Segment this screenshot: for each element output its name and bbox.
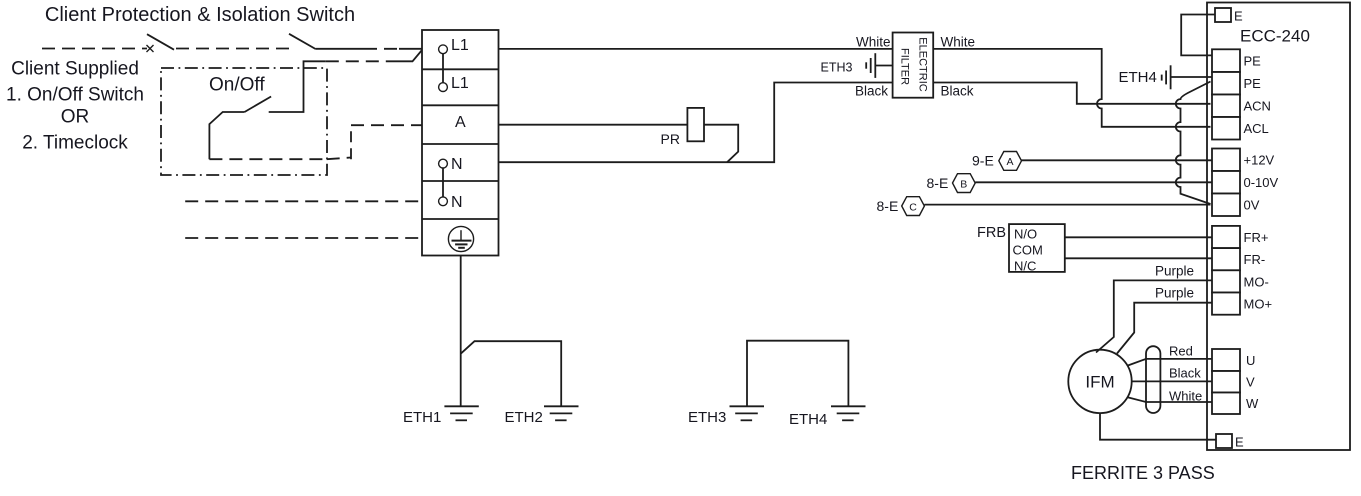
jumper link L1-L1: [442, 54, 444, 83]
svg-text:ETH4: ETH4: [1119, 69, 1157, 86]
wire hexagon B to 0-10V: [975, 181, 1212, 183]
terminal group FR+/FR-/MO-/MO+: [1212, 226, 1240, 315]
svg-text:N/C: N/C: [1014, 259, 1036, 274]
svg-text:FERRITE 3 PASS: FERRITE 3 PASS: [1071, 463, 1215, 483]
wire COM to FR-: [1065, 257, 1212, 259]
svg-text:W: W: [1246, 396, 1259, 411]
svg-text:White: White: [1169, 389, 1202, 404]
svg-text:ETH1: ETH1: [403, 409, 441, 426]
connector hexagon B: [953, 174, 976, 193]
connector hexagon A: [999, 152, 1022, 171]
svg-text:E: E: [1235, 435, 1244, 450]
svg-text:On/Off: On/Off: [209, 75, 265, 96]
svg-text:White: White: [856, 35, 891, 50]
svg-text:ETH2: ETH2: [505, 409, 543, 426]
wire PR to N junction: [704, 125, 738, 163]
svg-text:ELECTRIC: ELECTRIC: [917, 37, 929, 91]
terminal N top circle: [439, 159, 448, 168]
wire motor red to U: [1128, 359, 1213, 366]
terminal L1 lower circle: [439, 83, 448, 92]
terminal group PE/PE/ACN/ACL: [1212, 49, 1240, 139]
svg-text:2. Timeclock: 2. Timeclock: [22, 133, 128, 154]
svg-text:ECC-240: ECC-240: [1240, 27, 1310, 46]
wire dashed between switch poles: [176, 48, 289, 50]
wire dashed stub into earth terminal: [185, 237, 422, 239]
ground ETH1: [444, 406, 478, 420]
svg-text:ACN: ACN: [1244, 99, 1271, 114]
svg-text:8-E: 8-E: [877, 198, 899, 214]
svg-text:FRB: FRB: [977, 225, 1006, 241]
svg-text:ACL: ACL: [1244, 121, 1269, 136]
relay contact block FRB: [1009, 224, 1065, 272]
wire L dashed supply lead: [42, 48, 147, 50]
switch SW3 blade: [245, 97, 272, 113]
svg-text:8-E: 8-E: [927, 175, 949, 191]
svg-text:Black: Black: [941, 84, 974, 99]
wire filter black output to ACN: [933, 83, 1210, 104]
terminal E bottom square: [1216, 434, 1232, 448]
wire earth terminal down to ETH1: [460, 256, 462, 407]
switch SW1 blade: [147, 34, 174, 50]
svg-text:N: N: [451, 156, 463, 173]
terminal block TB1 outline: [422, 30, 499, 256]
wire hexagon A to +12V: [1022, 159, 1213, 161]
svg-text:Client Supplied: Client Supplied: [11, 59, 139, 80]
wire motor white to W: [1128, 397, 1213, 402]
protective earth terminal symbol: [448, 226, 473, 251]
wire L1 to electric filter (live): [499, 48, 893, 50]
ferrite core (3 pass) capsule: [1146, 346, 1160, 413]
node X contact mark: [147, 45, 154, 52]
relay coil PR: [687, 108, 704, 141]
svg-text:0V: 0V: [1244, 198, 1260, 213]
switch SW3 On/Off contact left lead: [209, 112, 244, 159]
wire bundle PE2 to 0V with hops: [1176, 82, 1211, 205]
wire filter white output to ACL (with hop over black): [933, 49, 1210, 127]
terminal group +12V/0-10V/0V: [1212, 149, 1240, 217]
svg-text:9-E: 9-E: [972, 153, 994, 169]
wire dashed stub into N terminal: [185, 200, 422, 202]
wire branch to ETH2: [461, 341, 561, 406]
svg-text:C: C: [909, 201, 917, 213]
svg-text:Purple: Purple: [1155, 286, 1194, 301]
svg-text:ETH3: ETH3: [688, 409, 726, 426]
svg-text:U: U: [1246, 353, 1255, 368]
jumper link N-N: [442, 168, 444, 197]
svg-text:MO+: MO+: [1244, 297, 1273, 312]
svg-text:E: E: [1234, 9, 1243, 24]
svg-text:ETH3: ETH3: [821, 61, 853, 75]
svg-text:1. On/Off Switch: 1. On/Off Switch: [6, 85, 144, 106]
switch SW3 right lead: [269, 61, 326, 112]
ground ETH4 (bottom): [831, 406, 866, 420]
svg-text:A: A: [1006, 156, 1013, 168]
svg-text:Red: Red: [1169, 344, 1193, 359]
wire switch to L1 terminal: [316, 48, 364, 50]
ground ETH4 chassis symbol: [1162, 65, 1212, 89]
svg-text:FILTER: FILTER: [899, 48, 911, 85]
svg-text:N: N: [451, 194, 463, 211]
wire purple MO- to motor: [1096, 280, 1212, 352]
svg-text:OR: OR: [61, 107, 90, 128]
svg-text:+12V: +12V: [1244, 153, 1275, 168]
wire N/O to FR+: [1065, 236, 1212, 238]
ground ETH3 (bottom): [730, 406, 765, 420]
wire motor earth to E: [1100, 413, 1216, 440]
switch SW2 blade: [289, 34, 316, 49]
svg-text:N/O: N/O: [1014, 227, 1037, 242]
svg-text:COM: COM: [1013, 243, 1043, 258]
svg-text:Black: Black: [855, 84, 888, 99]
wire ETH3 to ETH4 bond: [747, 341, 848, 407]
svg-text:L1: L1: [451, 37, 469, 54]
svg-text:MO-: MO-: [1244, 274, 1269, 289]
svg-text:FR+: FR+: [1244, 230, 1269, 245]
wire purple MO+ to motor: [1117, 303, 1212, 354]
motor IFM: [1068, 350, 1131, 413]
ECC-240 controller box: [1207, 3, 1350, 451]
wire dashed On/Off to L1 (upper): [326, 60, 390, 62]
terminal block TB1 row dividers: [422, 69, 499, 219]
svg-text:Black: Black: [1169, 366, 1201, 381]
svg-text:FR-: FR-: [1244, 252, 1266, 267]
wire dashed On/Off to A terminal (lower): [209, 158, 326, 160]
wire N terminal to filter black input: [499, 83, 893, 163]
ground ETH2: [544, 406, 579, 420]
wire E to PE1: [1181, 15, 1215, 56]
On/Off client switch enclosure (dash-dot box): [161, 68, 327, 175]
electric filter box U2: [893, 33, 934, 98]
svg-text:PE: PE: [1244, 54, 1262, 69]
ground ETH3 chassis symbol at filter: [866, 53, 892, 78]
svg-text:B: B: [960, 178, 967, 190]
svg-text:Client Protection & Isolation: Client Protection & Isolation Switch: [45, 4, 355, 26]
svg-text:PR: PR: [661, 131, 680, 147]
svg-text:L1: L1: [451, 75, 469, 92]
wire motor black to V: [1132, 380, 1212, 382]
svg-text:V: V: [1246, 375, 1255, 390]
svg-text:Purple: Purple: [1155, 264, 1194, 279]
svg-text:0-10V: 0-10V: [1244, 175, 1279, 190]
terminal L1 top circle: [439, 45, 448, 54]
terminal E top square: [1215, 8, 1231, 22]
terminal group U/V/W: [1212, 349, 1240, 414]
svg-text:White: White: [941, 35, 976, 50]
wire A terminal to PR coil: [499, 124, 688, 126]
svg-text:PE: PE: [1244, 76, 1262, 91]
wire hexagon C to 0V: [924, 204, 1210, 206]
terminal N lower circle: [439, 197, 448, 206]
svg-text:ETH4: ETH4: [789, 411, 827, 428]
svg-text:A: A: [455, 114, 466, 131]
connector hexagon C: [902, 197, 925, 216]
svg-text:IFM: IFM: [1085, 373, 1114, 392]
